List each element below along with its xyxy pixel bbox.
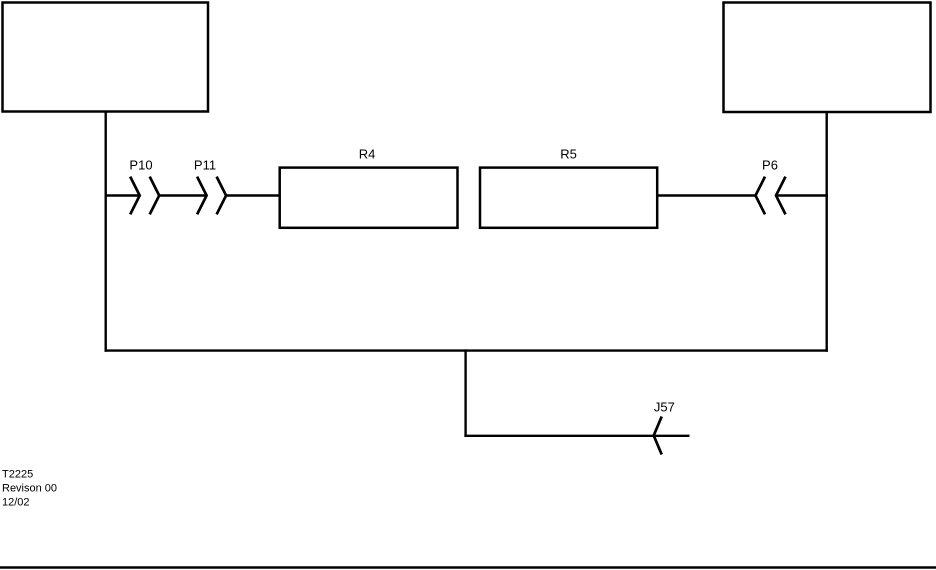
svg-text:P6: P6	[762, 158, 778, 173]
block: top-right box	[724, 3, 931, 113]
wire: bottom horizontal bus	[105, 349, 828, 351]
connector P6	[756, 177, 786, 215]
wire: R5 to P6	[657, 194, 755, 196]
wire: right vertical from top-right box to bottom bus	[826, 111, 828, 352]
connector J57	[654, 417, 662, 455]
connector P11	[197, 177, 226, 215]
wire: left vertical to P10	[105, 194, 140, 196]
wire: P11 to R4	[226, 194, 281, 196]
wire: P10 to P11	[159, 194, 206, 196]
svg-text:T2225: T2225	[2, 468, 33, 480]
wire: horizontal run to J57	[464, 435, 653, 437]
connector P10	[130, 177, 159, 215]
border line (bottom rule)	[0, 566, 936, 568]
svg-text:P10: P10	[129, 158, 152, 173]
resistor R4	[280, 168, 458, 228]
svg-text:Revison 00: Revison 00	[2, 482, 57, 494]
title block: drawing number T2225, Revison 00, 12/02	[2, 468, 57, 508]
block: top-left box	[3, 3, 209, 112]
wire: stub right of J57	[654, 435, 690, 437]
wire: P6 to right vertical	[776, 194, 828, 196]
svg-text:R5: R5	[560, 146, 577, 161]
svg-text:P11: P11	[194, 158, 216, 173]
wire: drop from bus toward J57	[464, 349, 466, 437]
svg-text:12/02: 12/02	[2, 496, 30, 508]
svg-text:R4: R4	[359, 146, 376, 161]
svg-text:J57: J57	[654, 400, 675, 415]
wire: left vertical from top-left box to bottom bus	[104, 111, 106, 352]
resistor R5	[480, 168, 657, 228]
